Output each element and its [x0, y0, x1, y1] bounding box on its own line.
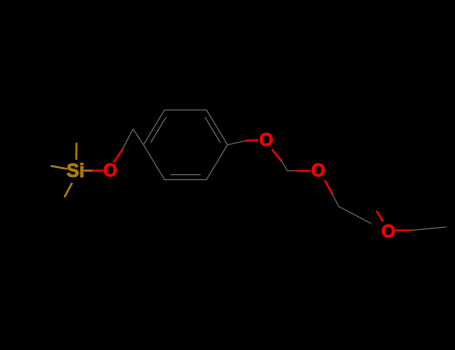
- wire: O3-CH2 bond red half: [325, 181, 332, 194]
- wire: ring-O2 bond gray half: [228, 141, 246, 145]
- double bond inner: upper-left edge: [151, 118, 166, 143]
- wire: CH2-CH2 bond gray: [339, 207, 371, 224]
- wire: O1-CH2 bond gray half: [122, 129, 133, 150]
- wire: Si-O bond red half: [94, 170, 103, 172]
- wire: ring-O2 bond red half: [246, 139, 258, 141]
- double bond inner: bottom edge: [171, 174, 200, 176]
- wire: CH2-O3 bond red half: [297, 170, 310, 172]
- wire: CH2-O3 bond gray half: [288, 170, 298, 172]
- wire: CH2-ring bond: [133, 129, 144, 145]
- wire: Si methyl left: [52, 166, 67, 169]
- wire: CH2-O4 bond red half: [377, 212, 383, 221]
- svg-text:O: O: [103, 160, 117, 180]
- svg-text:O: O: [259, 130, 273, 150]
- wire: O4-CH3 bond gray half: [411, 227, 446, 230]
- wire: O4-CH3 bond red half: [396, 229, 412, 231]
- wire: Si methyl up: [75, 144, 77, 160]
- svg-text:O: O: [381, 221, 395, 241]
- wire: O2-CH2 bond gray half: [281, 161, 287, 171]
- wire: O1-CH2 bond red half: [114, 150, 122, 162]
- wire: Si-O bond olive half: [85, 170, 94, 172]
- svg-text:Si: Si: [67, 161, 85, 182]
- benzene ring: [144, 110, 228, 180]
- wire: O3-CH2 bond gray half: [332, 194, 339, 207]
- wire: O2-CH2 bond red half: [272, 150, 281, 161]
- svg-text:O: O: [311, 161, 325, 181]
- double bond inner: upper-right edge: [205, 118, 220, 143]
- wire: Si methyl down-left: [65, 184, 72, 197]
